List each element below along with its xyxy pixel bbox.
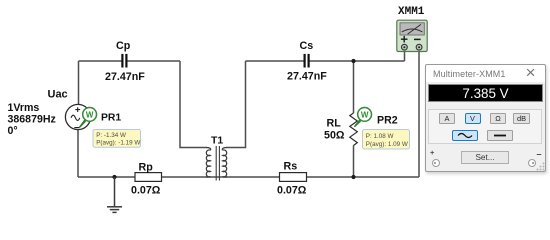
AC source Uac bbox=[65, 104, 90, 129]
svg-text:0°: 0° bbox=[8, 125, 18, 137]
button ohm bbox=[490, 113, 506, 124]
svg-text:27.47nF: 27.47nF bbox=[287, 71, 327, 83]
wire multimeter left lead bbox=[404, 52, 406, 62]
svg-text:27.47nF: 27.47nF bbox=[105, 71, 145, 83]
svg-text:XMM1: XMM1 bbox=[398, 6, 425, 18]
wire source top bbox=[78, 61, 80, 105]
node junction top (RL / Cs) bbox=[351, 59, 355, 63]
svg-text:Rs: Rs bbox=[284, 161, 298, 173]
wire source bottom bbox=[77, 130, 79, 177]
button V (selected) bbox=[465, 113, 481, 124]
resistor Rs bbox=[280, 173, 307, 182]
transformer core bbox=[216, 146, 219, 181]
svg-text:W: W bbox=[86, 111, 94, 120]
svg-text:386879Hz: 386879Hz bbox=[8, 113, 56, 125]
terminal minus bbox=[536, 149, 541, 159]
probe PR1 bbox=[80, 108, 97, 128]
multimeter XMM1 icon bbox=[397, 20, 427, 51]
capacitor Cs bbox=[305, 54, 309, 68]
node junction ground bbox=[112, 175, 116, 179]
capacitor Cp bbox=[122, 54, 126, 68]
svg-text:Cs: Cs bbox=[300, 40, 314, 52]
window title bar bbox=[426, 65, 545, 82]
svg-text:50Ω: 50Ω bbox=[324, 130, 345, 142]
wire RL branch top bbox=[353, 61, 355, 113]
resistor RL zigzag bbox=[350, 113, 358, 146]
ground bbox=[107, 177, 122, 212]
svg-text:PR1: PR1 bbox=[101, 113, 121, 124]
svg-text:PR2: PR2 bbox=[377, 115, 398, 127]
meter display 7.385 V bbox=[428, 84, 543, 102]
button AC (selected) bbox=[452, 130, 478, 141]
svg-text:1Vrms: 1Vrms bbox=[8, 102, 40, 114]
svg-text:Uac: Uac bbox=[48, 89, 68, 101]
button A bbox=[439, 113, 455, 124]
tooltip PR2 bbox=[363, 130, 410, 150]
svg-text:0.07Ω: 0.07Ω bbox=[277, 185, 307, 197]
button Set... bbox=[461, 151, 509, 164]
resistor Rp bbox=[135, 173, 162, 182]
node junction bottom (RL rail) bbox=[351, 175, 355, 179]
terminal plus bbox=[430, 148, 434, 157]
multimeter window Multimeter-XMM1 bbox=[425, 64, 546, 172]
svg-text:Rp: Rp bbox=[139, 162, 154, 174]
tooltip PR1 bbox=[93, 130, 141, 148]
svg-text:P(avg): 1.09 W: P(avg): 1.09 W bbox=[366, 141, 408, 148]
svg-text:W: W bbox=[361, 111, 369, 120]
wire transformer primary left bbox=[180, 61, 207, 148]
wire multimeter right lead bbox=[418, 52, 420, 178]
svg-text:0.07Ω: 0.07Ω bbox=[131, 185, 161, 197]
button dB bbox=[513, 113, 530, 124]
svg-text:Cp: Cp bbox=[116, 40, 131, 52]
wire top rail right bbox=[246, 60, 405, 62]
resize grip bbox=[536, 162, 545, 171]
wire bottom rail bbox=[78, 176, 419, 178]
window close button bbox=[526, 63, 536, 83]
svg-text:P: -1.34 W: P: -1.34 W bbox=[96, 132, 126, 139]
svg-text:P: 1.08 W: P: 1.08 W bbox=[366, 133, 394, 140]
button DC bbox=[487, 130, 513, 141]
wire transformer secondary right bbox=[226, 61, 246, 148]
svg-text:T1: T1 bbox=[211, 136, 223, 147]
transformer T1 bbox=[206, 148, 227, 178]
wire RL branch bottom bbox=[353, 146, 355, 178]
svg-text:P(avg): -1.19 W: P(avg): -1.19 W bbox=[96, 140, 140, 147]
button group frame bbox=[428, 109, 542, 144]
probe PR2 bbox=[355, 108, 372, 127]
svg-text:RL: RL bbox=[327, 118, 342, 130]
wire top rail left bbox=[79, 60, 181, 62]
